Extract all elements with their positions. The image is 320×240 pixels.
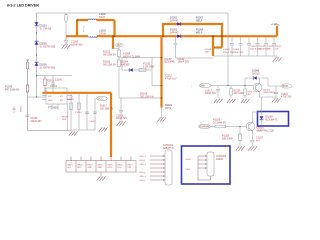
transformer right vertical [113,20,115,36]
resistor R1024 [244,86,246,99]
diode D1004 [129,68,133,72]
svg-text:SL N2TW GB3: SL N2TW GB3 [40,45,56,48]
svg-text:680R 4.7L 1/8W: 680R 4.7L 1/8W [123,55,141,58]
capacitor C1015 [256,44,260,45]
OUT stub orange [112,36,114,49]
collector wire to D1009 [252,112,261,118]
resistor R1010 [139,69,146,72]
svg-text:MELF: MELF [196,31,203,34]
capacitor C1012 [230,44,234,45]
svg-text:470uF 35V: 470uF 35V [233,52,244,54]
flag OUT [113,48,119,50]
svg-text:+LED+: +LED+ [185,159,192,161]
resistor R1009 [26,85,28,92]
capacitor C1027 on emitter [250,141,254,142]
svg-text:SL N2TW GB3: SL N2TW GB3 [40,66,56,69]
svg-text:+LED+(-: +LED+(- [139,156,147,158]
capacitor C1009 [26,115,30,116]
transformer T1001 primary vertical [76,20,78,36]
svg-text:PAD4: PAD4 [98,164,104,167]
svg-text:100 10W 1%: 100 10W 1% [100,108,113,110]
svg-text:MMBT4A(1)T1B: MMBT4A(1)T1B [257,129,275,132]
snubber loop [122,58,152,71]
svg-text:300 10W 1%: 300 10W 1% [140,95,155,98]
capacitor C1013 [239,44,243,45]
ground under terminal block [97,176,106,180]
diode D1008 loop [245,78,252,86]
svg-text:PAD3: PAD3 [88,164,94,167]
+LED+ stub [276,26,278,36]
svg-text:R1017: R1017 [100,106,107,108]
cap C1013 [120,98,122,110]
svg-text:C1009: C1009 [31,118,38,120]
main orange rail [66,35,277,37]
wire: left rail vertical [36,13,38,97]
svg-text:4.7uF 25V: 4.7uF 25V [281,97,292,99]
caps row verticals [232,36,274,56]
svg-text:VDIM: VDIM [282,86,288,88]
svg-text:VIN: VIN [48,96,52,98]
svg-text:PAD2: PAD2 [78,164,84,167]
blue box CON1002 output [182,146,231,184]
ground at C1005 [62,44,71,48]
capacitor C1023 [275,86,277,99]
svg-text:3W 15W 1%: 3W 15W 1% [103,53,117,56]
svg-text:C1010: C1010 [75,112,82,114]
svg-text:C1012: C1012 [165,76,172,78]
svg-text:PAD7: PAD7 [128,164,134,167]
capacitor C1017 [272,44,276,45]
svg-text:C1006: C1006 [55,80,62,82]
transistor Q1002 [253,78,262,97]
svg-text:1K 1/8W 1%: 1K 1/8W 1% [213,121,227,124]
svg-text:BZX384B: BZX384B [165,61,176,64]
wire: y97 row to IC [28,96,47,98]
svg-text:VCC: VCC [98,99,103,101]
wire: rail to controller row [37,75,73,77]
svg-text:100uH: 100uH [99,32,106,35]
svg-text:BAS16: BAS16 [252,72,260,75]
diode D1009 [261,97,263,116]
fuse F1001 [26,60,29,69]
resistor R1025 [239,127,241,135]
wire: AC return down left [28,92,72,131]
svg-text:-LED-(-: -LED-(- [139,180,146,182]
net flag right [281,84,292,88]
ground top right [276,56,278,58]
svg-text:2K2 1/8W: 2K2 1/8W [234,93,245,95]
wire IC right pin down [67,104,69,131]
svg-text:300K: 300K [62,119,67,121]
svg-text:R1026: R1026 [234,91,241,93]
cap C1011 stub [175,36,177,43]
svg-text:PAD5: PAD5 [108,164,114,167]
svg-text:C2006: C2006 [216,159,223,161]
left column parts [44,76,46,80]
svg-text:CON1001: CON1001 [163,145,174,147]
svg-text:2AF445: 2AF445 [170,19,179,22]
svg-text:10uH: 10uH [99,16,105,19]
inductor L1003 [89,36,97,37]
IC pins [42,96,72,100]
fuse F1002 top [65,13,68,36]
svg-text:C1013: C1013 [116,116,123,118]
svg-text:100nF 50V: 100nF 50V [116,118,128,120]
svg-text:100nF 50V: 100nF 50V [205,93,217,95]
svg-text:S2B-PH-K: S2B-PH-K [163,148,174,150]
svg-text:PAD1: PAD1 [68,164,74,167]
svg-text:C1012: C1012 [89,121,96,123]
below IC wires [52,96,72,111]
orange sub rail rung [213,46,222,48]
svg-text:SL 74A GB: SL 74A GB [40,27,52,30]
svg-text:LED-: LED- [118,167,123,169]
right orange rail down [160,36,162,107]
svg-text:Q1002: Q1002 [264,90,271,92]
resistor R1023 [215,125,226,128]
svg-text:+LED+(-: +LED+(- [139,176,147,178]
svg-text:CON1002: CON1002 [216,156,227,158]
svg-text:+LED+: +LED+ [271,23,279,26]
svg-text:1uF: 1uF [275,49,279,51]
resistor R1012 [118,47,120,50]
flag DIM on rail [95,97,97,99]
orange vertical x213 [212,36,214,56]
svg-text:R1015: R1015 [47,81,54,83]
svg-text:DIM: DIM [128,167,132,169]
svg-text:BZX384-TL: BZX384-TL [266,118,279,121]
diode D1003 [35,22,39,26]
svg-text:GND: GND [98,167,103,169]
svg-text:4n7: 4n7 [256,139,261,142]
svg-text:2.2R 1/8W: 2.2R 1/8W [143,65,155,68]
caps under controller rail [71,94,95,130]
svg-text:-LED-: -LED- [185,169,191,171]
junction dots [76,19,223,99]
svg-text:FT7040S: FT7040S [48,107,58,110]
svg-text:470pF 1KV: 470pF 1KV [165,78,177,80]
blue highlight box D1009 [258,112,289,127]
svg-text:BAT165: BAT165 [121,63,130,66]
net flag DIMPWM [199,124,211,128]
wire R-chain bottom [119,97,162,99]
resistor R1026 [230,86,232,99]
diode D1002 [177,22,181,26]
wire snubber top [119,57,162,59]
snubber right leg [152,70,162,86]
svg-text:LED+: LED+ [108,167,114,169]
svg-text:R1016: R1016 [67,99,74,101]
svg-text:VO: VO [60,96,63,98]
svg-text:C1023: C1023 [281,94,288,96]
svg-text:-LED-(-: -LED-(- [139,172,146,174]
inductor L1002 [88,19,96,20]
svg-text:MELF: MELF [196,19,203,22]
diode D1001 [177,34,181,38]
svg-text:R1007: R1007 [21,105,23,112]
emitter wire [259,96,276,98]
capacitor C1014 [247,44,251,45]
svg-text:82K 1/8W: 82K 1/8W [222,137,233,140]
gray lower rail [213,55,277,57]
svg-text:4R7 10W 5%: 4R7 10W 5% [5,88,20,91]
wire: top winding rail [77,19,115,21]
terminal block CON1004 [66,157,136,177]
resistor R1013 [118,57,120,61]
diode D1006 [35,62,39,66]
controller orange rail [43,92,112,94]
capacitor C1005 stub [65,36,67,40]
wire from top down to dim circuit [227,13,229,86]
svg-text:4R7S: 4R7S [165,107,171,110]
wire: top border horizontal [37,12,229,14]
diode D1005 [35,41,39,45]
svg-text:GND: GND [48,100,53,102]
svg-text:DIM+: DIM+ [200,86,206,88]
svg-text:DIMPWM: DIMPWM [200,127,210,129]
svg-text:220uF 16V: 220uF 16V [31,121,43,123]
svg-text:C1017: C1017 [205,91,212,93]
svg-text:1uF: 1uF [267,49,271,51]
svg-text:2AF445: 2AF445 [170,31,179,34]
capacitor C1017 [217,86,219,99]
ground under right rail [161,108,163,119]
svg-text:GND: GND [88,167,93,169]
wire F1001 to R1009 [27,69,29,85]
svg-text:PAD6: PAD6 [118,164,124,167]
svg-text:U1001: U1001 [50,85,58,88]
svg-text:3W 15W 1%: 3W 15W 1% [103,63,117,66]
svg-text:100nF 50V: 100nF 50V [178,61,190,64]
transistor Q1001 [246,118,255,140]
IC U1001 box [46,88,67,104]
svg-text:MMBT4A(1): MMBT4A(1) [264,91,276,94]
cap labels [205,46,283,54]
svg-text:+LED+(-: +LED+(- [139,164,147,166]
orange vertical x222 [221,36,223,47]
wire flag to Q1002 base [211,85,254,87]
orange drop to connector [110,93,112,157]
svg-text:-LED-(-: -LED-(- [139,160,146,162]
svg-text:100n: 100n [205,51,211,53]
bypass rect orange [163,24,222,36]
svg-text:8-1-2 LED DRIVER: 8-1-2 LED DRIVER [7,3,39,7]
svg-text:100nF 50V: 100nF 50V [71,43,83,46]
svg-text:OUT: OUT [117,44,123,47]
capacitor C1016 [264,44,268,45]
